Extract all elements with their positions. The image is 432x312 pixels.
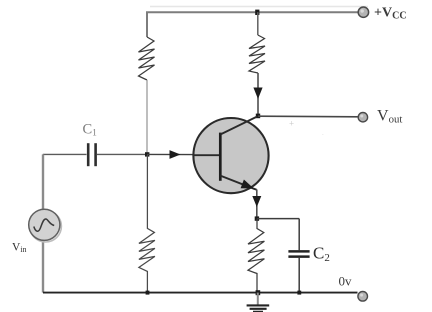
artifact smudge right of transistor (322, 129, 324, 137)
label C2 (313, 244, 330, 265)
wire Vout line (258, 115, 358, 118)
artifact plus mark near Vout (289, 119, 294, 129)
svg-text:.: . (322, 129, 324, 137)
wire C2 top lead (298, 219, 300, 251)
ground (247, 293, 270, 312)
node emitter junction (255, 216, 259, 220)
wire base junction to transistor with arrow (147, 150, 195, 159)
capacitor C2 (288, 251, 309, 256)
node R2 bottom rail junction (146, 291, 150, 295)
svg-text:0v: 0v (339, 274, 353, 289)
wire collector branch upper (257, 12, 259, 35)
svg-text:C1: C1 (83, 122, 98, 139)
wire C2 bottom lead (298, 258, 300, 293)
wire emitter junction to C2 branch (257, 218, 299, 220)
source V1 sine generator (29, 209, 62, 242)
label Vin (12, 242, 27, 255)
label Vout (377, 108, 402, 126)
wire base left segment from source column (43, 153, 87, 155)
transistor Q1 (193, 116, 268, 193)
wire left source column upper (42, 154, 44, 209)
wire top rail shadow (150, 6, 368, 8)
svg-text:+VCC: +VCC (374, 6, 407, 22)
wire top supply rail (147, 12, 359, 37)
node C2 bottom rail junction (297, 291, 301, 295)
svg-text:Vin: Vin (12, 242, 27, 255)
terminal 0v (358, 292, 368, 302)
wire left source column lower (42, 240, 44, 293)
node collector junction (256, 114, 260, 119)
label C1 (83, 122, 98, 139)
resistor RC (249, 35, 265, 73)
terminal +Vcc (358, 7, 368, 17)
label 0v (339, 274, 353, 289)
wire bottom rail (43, 292, 358, 294)
capacitor C1 (88, 143, 95, 166)
wire R1 bottom to base node (146, 80, 148, 154)
label +Vcc (374, 6, 407, 22)
resistor R2 (139, 154, 155, 292)
svg-text:+: + (289, 119, 294, 129)
resistor RE (248, 219, 264, 293)
resistor R1 (139, 37, 155, 80)
node ground junction (256, 290, 261, 295)
wire RC to collector node with arrow (253, 73, 262, 116)
wire C1 to base junction (97, 153, 147, 155)
node junction top rail / collector branch (255, 10, 259, 15)
terminal Vout (358, 113, 367, 122)
wire emitter vertical with arrow (252, 190, 261, 219)
svg-text:Vout: Vout (377, 108, 402, 126)
svg-text:C2: C2 (313, 244, 330, 265)
node base junction (145, 152, 149, 156)
